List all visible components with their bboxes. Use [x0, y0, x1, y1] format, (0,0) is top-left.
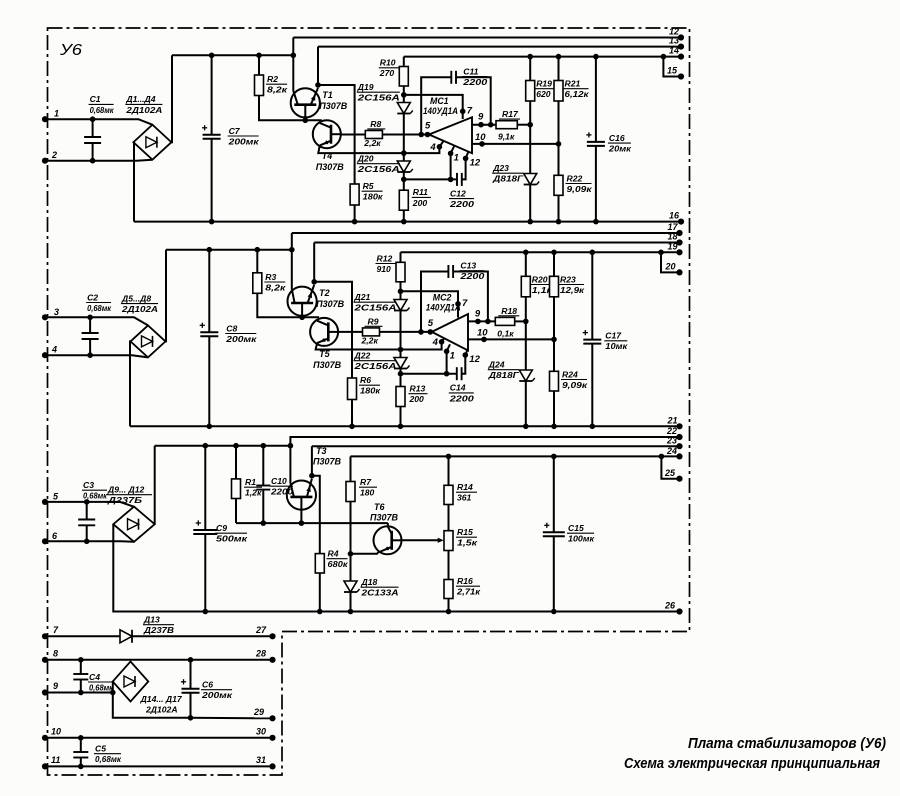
svg-text:10: 10 [475, 132, 486, 143]
svg-text:С8: С8 [226, 323, 237, 333]
svg-text:Плата стабилизаторов (У6): Плата стабилизаторов (У6) [688, 736, 886, 752]
wire [45, 355, 148, 357]
svg-text:200: 200 [409, 394, 425, 404]
svg-text:0,68мк: 0,68мк [89, 682, 114, 692]
svg-text:9,1к: 9,1к [498, 132, 515, 142]
svg-text:16: 16 [669, 211, 680, 221]
svg-text:21: 21 [667, 415, 678, 425]
svg-text:200мк: 200мк [227, 136, 259, 146]
node [398, 371, 404, 377]
svg-text:С5: С5 [95, 744, 106, 754]
svg-text:9: 9 [478, 112, 484, 123]
wire [291, 233, 293, 289]
pin 12 riser [462, 158, 466, 179]
svg-text:13: 13 [669, 36, 679, 46]
svg-text:Д237Б: Д237Б [107, 495, 142, 505]
svg-text:10мк: 10мк [605, 341, 628, 351]
svg-text:12,9к: 12,9к [560, 285, 585, 295]
resistor R14 361 [446, 454, 452, 460]
wire emitter Т4 [318, 146, 439, 153]
node 7 [455, 301, 461, 307]
capacitor С11 2200 [421, 77, 451, 134]
svg-text:R9: R9 [368, 316, 379, 326]
zener Д21 2С156А [400, 291, 402, 299]
svg-text:4: 4 [51, 345, 57, 355]
svg-text:9,09к: 9,09к [562, 380, 588, 390]
svg-text:R7: R7 [360, 477, 372, 487]
svg-text:Д9... Д12: Д9... Д12 [107, 485, 145, 495]
svg-text:R11: R11 [413, 187, 428, 197]
svg-text:31: 31 [256, 755, 266, 765]
wire to pin 7 [401, 291, 459, 317]
svg-text:500мк: 500мк [216, 534, 248, 544]
bridge rectifier Д5...Д8 [131, 325, 166, 357]
wire [129, 341, 132, 426]
pin 27 [269, 633, 275, 639]
wire [45, 659, 273, 661]
capacitor С2 [89, 317, 91, 333]
svg-text:3: 3 [54, 307, 59, 317]
svg-text:Д23: Д23 [492, 163, 509, 173]
capacitor С13 2200 [421, 272, 448, 332]
node 7 [460, 109, 466, 115]
svg-text:2200: 2200 [449, 393, 475, 403]
svg-text:Т3: Т3 [316, 446, 327, 456]
svg-text:С12: С12 [450, 188, 466, 198]
svg-text:10: 10 [477, 327, 488, 338]
node [523, 319, 529, 325]
svg-text:2Д102А: 2Д102А [121, 304, 158, 314]
svg-text:140УД1А: 140УД1А [426, 303, 461, 313]
svg-text:17: 17 [668, 222, 679, 232]
resistor R8 2,2к [341, 134, 366, 136]
svg-text:0,68мк: 0,68мк [83, 491, 108, 501]
capacitor С6 200мк [188, 657, 194, 663]
svg-text:R17: R17 [502, 109, 519, 119]
svg-text:12: 12 [470, 157, 481, 168]
zener Д18 2С133А [350, 554, 352, 581]
svg-text:5: 5 [425, 121, 431, 132]
node raw+ [289, 247, 295, 253]
capacitor С4 [78, 657, 84, 663]
pin 12 riser [462, 355, 466, 374]
svg-text:2С156А: 2С156А [353, 303, 396, 313]
svg-text:С3: С3 [83, 480, 94, 490]
svg-text:0,68мк: 0,68мк [87, 303, 112, 313]
wire [166, 249, 292, 251]
svg-text:П307В: П307В [370, 513, 398, 523]
transistor Т4 П307В [313, 120, 341, 148]
svg-text:Д19: Д19 [357, 82, 374, 92]
svg-text:0,68мк: 0,68мк [95, 754, 122, 764]
wire base Т6 to R15 wiper [402, 539, 439, 541]
svg-text:200мк: 200мк [225, 334, 257, 344]
svg-text:С17: С17 [605, 331, 622, 341]
svg-text:R3: R3 [265, 272, 276, 282]
resistor R22 9,09к [558, 144, 560, 175]
svg-text:27: 27 [255, 625, 267, 635]
svg-text:R13: R13 [410, 384, 426, 394]
svg-text:2С156А: 2С156А [356, 93, 399, 103]
svg-text:8,2к: 8,2к [267, 85, 288, 95]
wire [45, 502, 134, 507]
svg-text:24: 24 [666, 446, 677, 456]
zener Д22 2С156А [400, 350, 402, 358]
wire [45, 317, 148, 325]
capacitor С8 200мк [207, 247, 213, 253]
svg-text:30: 30 [256, 727, 266, 737]
pin 15 stub [661, 54, 667, 60]
svg-text:С13: С13 [460, 261, 476, 271]
pin 18 line [314, 242, 679, 244]
svg-text:180к: 180к [363, 192, 384, 202]
node 5 [418, 132, 424, 138]
svg-text:R23: R23 [560, 274, 576, 284]
svg-text:С6: С6 [202, 680, 213, 690]
svg-text:20: 20 [665, 261, 676, 271]
svg-text:Д5...Д8: Д5...Д8 [121, 293, 151, 303]
capacitor С15 100мк [551, 454, 557, 460]
transistor Т1 П307В [291, 88, 320, 117]
svg-text:10: 10 [51, 727, 61, 737]
svg-text:R22: R22 [567, 173, 583, 183]
resistor R18 0,1к [468, 320, 495, 322]
svg-text:23: 23 [666, 436, 677, 446]
capacitor С16 20мк [593, 54, 599, 60]
resistor R17 9,1к [472, 124, 496, 126]
svg-text:140УД1А: 140УД1А [423, 106, 458, 116]
svg-text:Т6: Т6 [374, 502, 385, 512]
capacitor С5 [78, 735, 84, 741]
pin 6 [42, 538, 48, 544]
svg-text:0,1к: 0,1к [497, 328, 514, 338]
svg-text:2200: 2200 [459, 271, 485, 281]
resistor R23 12,9к [551, 250, 557, 256]
pin 30 [269, 735, 275, 741]
pin 21 [676, 423, 682, 429]
capacitor С7 200мк [209, 53, 215, 59]
svg-text:20мк: 20мк [608, 144, 632, 154]
pin 1 riser [450, 153, 452, 179]
node [401, 177, 407, 183]
svg-text:Д818Г: Д818Г [492, 174, 524, 184]
svg-text:R15: R15 [457, 527, 473, 537]
svg-text:R16: R16 [457, 576, 473, 586]
node [288, 443, 294, 449]
wire emitter rail [312, 445, 680, 447]
pin 4 [42, 352, 48, 358]
svg-text:R24: R24 [562, 369, 578, 379]
node 5 [418, 329, 424, 335]
wire raw rail [155, 445, 291, 447]
svg-text:12: 12 [469, 354, 480, 365]
node [527, 122, 533, 128]
resistor R13 200 [400, 374, 402, 387]
resistor R24 9,09к [553, 339, 555, 371]
wire [302, 316, 319, 318]
resistor R5 180к [350, 184, 359, 205]
svg-text:4: 4 [432, 337, 439, 348]
svg-text:680к: 680к [328, 559, 349, 569]
svg-text:270: 270 [379, 68, 395, 78]
wire pin 10 to divider [468, 338, 554, 340]
wire [189, 717, 272, 720]
svg-text:18: 18 [668, 232, 678, 242]
svg-text:15: 15 [667, 66, 678, 76]
svg-text:2С156А: 2С156А [356, 164, 399, 174]
wire to pin 7 [404, 95, 463, 119]
pin 11 [42, 763, 48, 769]
wire [154, 446, 156, 525]
capacitor С9 500мк [203, 443, 209, 449]
svg-text:С16: С16 [609, 133, 625, 143]
svg-text:П307В: П307В [316, 162, 344, 172]
svg-text:С15: С15 [568, 523, 584, 533]
wire [314, 282, 352, 378]
svg-text:9,09к: 9,09к [567, 184, 593, 194]
svg-text:2200: 2200 [462, 77, 488, 87]
resistor R3 8,2к [254, 247, 260, 253]
pin 8 [42, 657, 48, 663]
svg-text:29: 29 [253, 707, 264, 717]
wire output rail [404, 56, 664, 58]
capacitor С12 2200 [404, 178, 457, 180]
pin 25 stub [659, 454, 665, 460]
node output [488, 122, 494, 128]
svg-text:Т2: Т2 [319, 288, 330, 298]
svg-text:200мк: 200мк [201, 690, 233, 700]
capacitor С10 2200 [261, 443, 267, 449]
wire [292, 38, 294, 91]
pin 17 line [292, 232, 680, 234]
svg-text:0,68мк: 0,68мк [90, 105, 115, 115]
svg-text:Д14... Д17: Д14... Д17 [140, 694, 183, 704]
svg-text:П307В: П307В [313, 457, 341, 467]
svg-text:R21: R21 [565, 79, 581, 89]
resistor R4 680к [312, 476, 320, 554]
pin 1 riser [446, 351, 448, 373]
resistor R21 6,12к [556, 54, 562, 60]
resistor R7 180 [350, 456, 352, 481]
wire [305, 119, 322, 121]
svg-text:R12: R12 [377, 253, 393, 263]
wire output rail [401, 251, 662, 253]
svg-text:2Д102А: 2Д102А [145, 705, 178, 715]
bridge rectifier Д9...Д12 [113, 507, 154, 542]
ground rail ch3 [113, 611, 679, 613]
svg-text:R18: R18 [501, 306, 517, 316]
svg-text:2С156А: 2С156А [353, 361, 396, 371]
wire emitter Т5 [316, 342, 442, 350]
svg-text:R8: R8 [370, 119, 381, 129]
pin 13 line [318, 46, 681, 48]
svg-text:П307В: П307В [313, 360, 341, 370]
svg-text:26: 26 [664, 601, 676, 611]
svg-text:180: 180 [360, 488, 375, 498]
resistor R2 8,2к [256, 53, 262, 59]
op-amp МС2 [432, 314, 468, 351]
transistor Т5 П307В [310, 318, 338, 346]
svg-text:С2: С2 [87, 292, 98, 302]
svg-text:С7: С7 [229, 126, 241, 136]
pin 1 [42, 116, 48, 122]
board outline (dash-dot border of unit У6) [48, 28, 690, 775]
svg-text:С9: С9 [216, 523, 227, 533]
svg-text:2С133А: 2С133А [360, 588, 398, 598]
wire [170, 55, 173, 142]
wire pin 10 to divider [472, 143, 559, 145]
resistor R1 1,2к [233, 443, 239, 449]
svg-text:R4: R4 [328, 549, 339, 559]
svg-text:П307В: П307В [316, 299, 344, 309]
svg-text:R5: R5 [363, 181, 374, 191]
bridge rectifier Д14...Д17 [113, 662, 149, 702]
svg-text:2,71к: 2,71к [456, 587, 481, 597]
svg-text:2200: 2200 [449, 199, 475, 209]
svg-text:1: 1 [450, 350, 455, 361]
svg-text:R6: R6 [360, 375, 371, 385]
svg-text:У6: У6 [59, 42, 82, 59]
pin 5 [42, 499, 48, 505]
pin 19 [676, 249, 682, 255]
wire [317, 47, 319, 85]
resistor R10 270 [403, 57, 405, 67]
wire [113, 682, 189, 718]
wire [165, 250, 168, 342]
svg-text:1: 1 [54, 109, 59, 119]
svg-text:100мк: 100мк [568, 534, 595, 544]
zener Д23 Д818Г [529, 125, 531, 173]
wire base [236, 522, 388, 524]
node zener chain / emitter wire [401, 150, 407, 156]
svg-text:Д22: Д22 [354, 351, 371, 361]
svg-text:Д18: Д18 [361, 577, 378, 587]
svg-text:4: 4 [429, 142, 436, 153]
svg-text:R10: R10 [380, 58, 396, 68]
svg-text:200: 200 [412, 198, 428, 208]
svg-text:R14: R14 [457, 482, 473, 492]
node R10 bottom [398, 289, 404, 295]
resistor R11 200 [403, 179, 405, 190]
pin 31 [269, 763, 275, 769]
svg-text:Д237В: Д237В [143, 625, 174, 635]
svg-text:С14: С14 [450, 383, 466, 393]
svg-text:R19: R19 [536, 79, 552, 89]
pin 7 [42, 633, 48, 639]
capacitor С14 2200 [401, 373, 457, 375]
svg-text:R20: R20 [532, 274, 548, 284]
wire [45, 540, 134, 542]
transistor Т6 П307В [374, 526, 402, 554]
svg-text:П307В: П307В [319, 101, 347, 111]
diode Д13 Д237В [45, 635, 120, 637]
node R10 bottom [401, 92, 407, 98]
zener Д24 Д818Г [525, 321, 527, 369]
wire emitter Т6 [351, 552, 380, 554]
pin 26 [676, 608, 682, 614]
wire [313, 243, 315, 282]
node 4 [439, 339, 445, 345]
resistor R16 2,71к [444, 580, 453, 599]
pin 16 [678, 219, 684, 225]
ground rail [134, 221, 681, 223]
ground rail [130, 425, 680, 427]
pin 9 [42, 689, 48, 695]
svg-text:9: 9 [53, 681, 58, 691]
node base Т2 [299, 315, 305, 321]
wire [301, 303, 303, 317]
svg-text:Т1: Т1 [322, 90, 333, 100]
pin 29 [269, 715, 275, 721]
svg-text:R1: R1 [245, 477, 256, 487]
svg-text:361: 361 [457, 493, 472, 503]
bridge rectifier Д1...Д4 [133, 125, 171, 160]
svg-text:25: 25 [664, 468, 676, 478]
svg-text:Схема электрическая принципи: Схема электрическая принципиальная [624, 756, 880, 772]
svg-text:С11: С11 [463, 66, 478, 76]
svg-text:Д13: Д13 [143, 615, 160, 625]
node raw+ [291, 53, 297, 59]
wire [45, 737, 273, 739]
pin 23 [676, 443, 682, 449]
pin 20 stub [658, 250, 664, 256]
capacitor С17 10мк [590, 250, 596, 256]
capacitor С1 [92, 119, 94, 137]
op-amp МС1 [429, 117, 472, 153]
svg-text:Д818Г: Д818Г [488, 370, 520, 380]
svg-text:2: 2 [51, 150, 57, 160]
svg-text:180к: 180к [360, 386, 381, 396]
svg-text:МС2: МС2 [433, 293, 452, 303]
capacitor С3 [86, 502, 88, 520]
svg-text:28: 28 [255, 649, 266, 659]
pin 10 [42, 735, 48, 741]
zener Д20 2С156А [403, 153, 405, 160]
svg-text:Д20: Д20 [357, 154, 374, 164]
svg-text:7: 7 [462, 298, 468, 309]
resistor R20 1,1к [523, 250, 529, 256]
pin 28 [269, 657, 275, 663]
zener Д19 2С156А [403, 95, 405, 102]
svg-text:1: 1 [454, 152, 459, 163]
pin 22 [676, 434, 682, 440]
wire [45, 160, 152, 161]
svg-text:Д24: Д24 [488, 360, 505, 370]
svg-text:С1: С1 [90, 94, 101, 104]
pin 3 [42, 314, 48, 320]
svg-text:620: 620 [536, 89, 551, 99]
svg-text:7: 7 [467, 105, 473, 116]
svg-text:2,2к: 2,2к [361, 335, 379, 345]
node 4 [437, 144, 443, 150]
svg-text:8,2к: 8,2к [265, 282, 286, 292]
pin 2 [42, 158, 48, 164]
svg-text:МС1: МС1 [430, 96, 449, 106]
wire [172, 54, 293, 56]
svg-text:Д1...Д4: Д1...Д4 [125, 94, 155, 104]
svg-text:5: 5 [428, 318, 434, 329]
pin 12 line [293, 37, 681, 39]
svg-text:С4: С4 [89, 672, 100, 682]
resistor R19 620 [527, 54, 533, 60]
wire [113, 524, 205, 611]
transistor Т2 П307В [288, 287, 317, 316]
wire [45, 765, 273, 767]
wire [45, 119, 152, 125]
node zener chain / emitter wire [398, 347, 404, 353]
svg-text:R2: R2 [267, 74, 278, 84]
wire top rail R7/R14/C15 [351, 455, 680, 457]
